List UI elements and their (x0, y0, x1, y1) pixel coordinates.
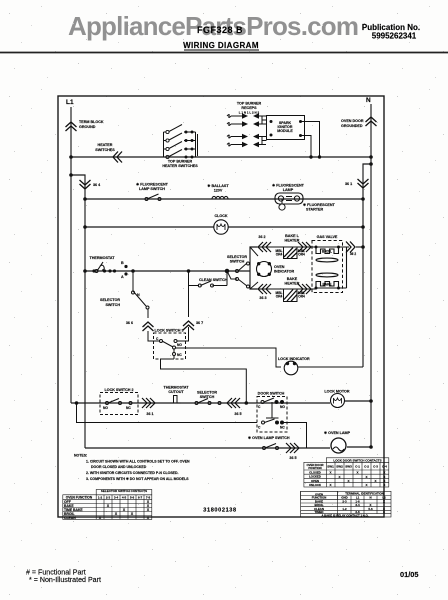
svg-text:B: B (121, 261, 124, 265)
svg-text:✳ OVEN LAMP: ✳ OVEN LAMP (324, 431, 351, 435)
svg-text:1-2: 1-2 (98, 496, 103, 500)
svg-text:36 5: 36 5 (289, 456, 296, 460)
svg-text:RECEPS: RECEPS (241, 106, 257, 110)
svg-text:120V: 120V (214, 189, 223, 193)
svg-text:N: N (137, 293, 140, 297)
svg-text:NOTES:: NOTES: (74, 454, 87, 458)
svg-text:OR4: OR4 (276, 253, 283, 257)
svg-text:SWITCHES: SWITCHES (95, 148, 115, 152)
svg-text:NO: NO (103, 406, 108, 410)
svg-text:CLOCK: CLOCK (214, 214, 227, 218)
svg-text:C-3: C-3 (373, 465, 378, 469)
svg-text:SWITCH: SWITCH (200, 395, 215, 399)
svg-text:X: X (329, 483, 331, 487)
svg-text:GROUND: GROUND (79, 125, 96, 129)
svg-text:OVEN DOOR: OVEN DOOR (341, 119, 364, 123)
svg-text:TOP BURNER: TOP BURNER (168, 160, 193, 164)
svg-text:X: X (383, 483, 385, 487)
svg-text:TERMINAL IDENTIFICATION: TERMINAL IDENTIFICATION (345, 492, 384, 496)
svg-text:X: X (356, 471, 358, 475)
svg-text:5-6: 5-6 (368, 507, 373, 511)
svg-text:36 2: 36 2 (350, 252, 356, 256)
svg-text:CUTOUT: CUTOUT (168, 390, 184, 394)
svg-text:X: X (374, 479, 376, 483)
svg-text:3-4: 3-4 (355, 503, 360, 507)
svg-text:01/05: 01/05 (400, 570, 419, 579)
svg-text:TOP BURNER: TOP BURNER (237, 102, 262, 106)
svg-text:OR4: OR4 (298, 295, 305, 299)
svg-text:3-4: 3-4 (114, 496, 119, 500)
svg-text:SELECTOR: SELECTOR (100, 298, 120, 302)
svg-text:MODULE: MODULE (277, 129, 293, 133)
svg-text:2-3: 2-3 (342, 500, 347, 504)
svg-text:DOOR CLOSED AND UNLOCKED: DOOR CLOSED AND UNLOCKED (91, 465, 147, 469)
svg-text:36 5: 36 5 (234, 412, 241, 416)
svg-text:X: X (383, 510, 385, 514)
svg-text:X: X (365, 483, 367, 487)
svg-text:2-3: 2-3 (106, 496, 111, 500)
svg-text:A: A (121, 275, 124, 279)
svg-text:1. CIRCUIT SHOWN WITH ALL CON: 1. CIRCUIT SHOWN WITH ALL CONTROLS SET T… (86, 460, 190, 464)
svg-text:SW1: SW1 (327, 465, 334, 469)
svg-text:X: X (383, 500, 385, 504)
svg-text:OVEN FUNCTION: OVEN FUNCTION (66, 496, 93, 500)
svg-text:36 6: 36 6 (126, 321, 133, 325)
svg-text:N: N (369, 496, 371, 500)
svg-text:HEATER: HEATER (285, 239, 300, 243)
svg-text:STARTER: STARTER (306, 208, 323, 212)
svg-text:1-2: 1-2 (342, 507, 347, 511)
svg-text:BAKE: BAKE (287, 277, 298, 281)
svg-text:NC: NC (280, 426, 285, 430)
svg-text:INDICATOR: INDICATOR (274, 270, 294, 274)
svg-text:TERM BLOCK: TERM BLOCK (79, 120, 104, 124)
svg-text:✳ FLUORESCENT: ✳ FLUORESCENT (303, 203, 336, 207)
svg-text:SW3: SW3 (345, 465, 352, 469)
svg-text:SW2: SW2 (336, 465, 343, 469)
svg-text:7-8: 7-8 (146, 496, 151, 500)
svg-text:LOCK SWITCH 3: LOCK SWITCH 3 (154, 329, 183, 333)
svg-text:5-6: 5-6 (130, 496, 135, 500)
svg-text:6-7: 6-7 (138, 496, 143, 500)
svg-text:LOCK INDICATOR: LOCK INDICATOR (278, 357, 310, 361)
svg-text:LAMP: LAMP (283, 188, 294, 192)
svg-text:2. WITH IGNITOR CIRCUITS CON: 2. WITH IGNITOR CIRCUITS CONNECTED P-N C… (86, 471, 179, 475)
svg-text:L 1 N 1 L 2 N 2: L 1 N 1 L 2 N 2 (239, 111, 260, 115)
svg-text:✳ FLUORESCENT: ✳ FLUORESCENT (136, 183, 169, 187)
svg-text:BAKE: BAKE (322, 283, 331, 287)
svg-text:OR4: OR4 (298, 253, 305, 257)
svg-text:NC: NC (177, 353, 182, 357)
svg-text:* = Non-Illustrated Part: * = Non-Illustrated Part (29, 576, 101, 584)
svg-text:3. COMPONENTS WITH ✳ DO NOT A: 3. COMPONENTS WITH ✳ DO NOT APPEAR ON AL… (86, 477, 189, 481)
svg-text:5995262341: 5995262341 (372, 32, 417, 41)
svg-text:LOCK MOTOR: LOCK MOTOR (324, 390, 349, 394)
svg-text:C-2: C-2 (364, 465, 369, 469)
svg-text:X: X (338, 475, 340, 479)
svg-text:WIRING DIAGRAM: WIRING DIAGRAM (183, 41, 259, 50)
svg-text:SWITCH: SWITCH (230, 260, 245, 264)
svg-text:X: X (329, 471, 331, 475)
svg-text:LOCK SWITCH 2: LOCK SWITCH 2 (104, 388, 133, 392)
svg-text:318002138: 318002138 (203, 508, 236, 514)
svg-text:36 2: 36 2 (258, 235, 265, 239)
svg-text:HEATER SWITCHES: HEATER SWITCHES (162, 164, 198, 168)
svg-text:C-1: C-1 (355, 465, 360, 469)
svg-text:36 7: 36 7 (196, 321, 203, 325)
svg-text:BAKE L: BAKE L (285, 234, 299, 238)
svg-text:N: N (366, 97, 371, 104)
svg-text:36 1: 36 1 (345, 182, 352, 186)
svg-text:THERMOSTAT: THERMOSTAT (163, 386, 189, 390)
svg-text:CLEAN: CLEAN (64, 516, 76, 520)
svg-text:LOCK DOOR SWITCH CONTACTS: LOCK DOOR SWITCH CONTACTS (333, 458, 381, 462)
svg-text:HEATER: HEATER (285, 282, 300, 286)
svg-text:X: X (365, 475, 367, 479)
svg-text:X: X (347, 479, 349, 483)
svg-text:✳ BALLAST: ✳ BALLAST (207, 184, 229, 188)
svg-text:NC: NC (126, 406, 131, 410)
svg-text:C-4: C-4 (382, 465, 387, 469)
svg-text:NO: NO (177, 343, 182, 347)
svg-text:36 4: 36 4 (93, 183, 101, 187)
svg-text:SWITCH: SWITCH (105, 303, 120, 307)
svg-text:UNLOCK: UNLOCK (309, 483, 321, 487)
svg-text:A BAKE IS RELAY CONTACT 1 N.O: A BAKE IS RELAY CONTACT 1 N.O. (321, 514, 368, 518)
svg-text:SELECTOR: SELECTOR (227, 255, 247, 259)
svg-text:SELECTOR SWITCH CONTACTS: SELECTOR SWITCH CONTACTS (101, 489, 147, 493)
svg-text:DOOR SWITCH: DOOR SWITCH (258, 392, 285, 396)
svg-text:HEATER: HEATER (98, 143, 113, 147)
svg-text:L1: L1 (66, 99, 74, 106)
svg-text:SELECTOR: SELECTOR (197, 391, 217, 395)
svg-text:✳ OVEN LAMP SWITCH: ✳ OVEN LAMP SWITCH (248, 436, 290, 440)
svg-text:BROIL: BROIL (322, 250, 332, 254)
svg-text:4-5: 4-5 (122, 496, 127, 500)
svg-text:LAMP SWITCH: LAMP SWITCH (139, 187, 165, 191)
svg-text:CLEAN SWITCH: CLEAN SWITCH (199, 278, 228, 282)
svg-text:THERMOSTAT: THERMOSTAT (89, 256, 115, 260)
svg-text:GROUNDED: GROUNDED (341, 124, 363, 128)
svg-text:NO: NO (280, 405, 285, 409)
svg-text:GAS VALVE: GAS VALVE (317, 235, 338, 239)
svg-text:✳ FLUORESCENT: ✳ FLUORESCENT (272, 184, 305, 188)
svg-text:36 3: 36 3 (259, 296, 266, 300)
svg-text:FGF328 B: FGF328 B (197, 25, 243, 35)
svg-text:36 1: 36 1 (146, 412, 153, 416)
svg-text:OR4: OR4 (276, 295, 283, 299)
svg-text:OVEN: OVEN (274, 265, 285, 269)
